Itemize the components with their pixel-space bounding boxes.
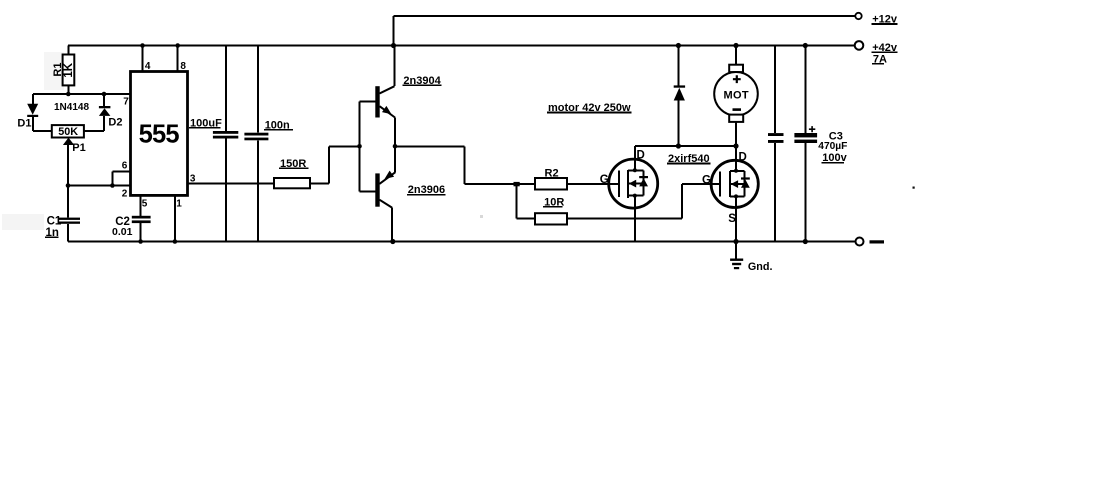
svg-text:D2: D2	[108, 116, 122, 128]
svg-text:7: 7	[123, 97, 129, 108]
svg-text:G: G	[702, 175, 711, 187]
svg-text:R2: R2	[545, 167, 559, 179]
svg-text:4: 4	[145, 61, 151, 72]
svg-text:1K: 1K	[63, 62, 75, 77]
svg-text:0.01: 0.01	[112, 226, 133, 238]
svg-text:G: G	[600, 174, 609, 186]
svg-text:8: 8	[180, 61, 186, 72]
svg-text:3: 3	[190, 174, 196, 185]
svg-text:MOT: MOT	[724, 89, 749, 101]
svg-text:5: 5	[142, 198, 148, 209]
svg-text:P1: P1	[72, 142, 85, 154]
svg-text:S: S	[728, 213, 736, 225]
svg-text:D: D	[739, 151, 747, 163]
svg-text:D: D	[637, 150, 645, 162]
svg-text:2: 2	[122, 189, 128, 200]
svg-text:555: 555	[139, 121, 180, 149]
svg-text:1: 1	[176, 198, 182, 209]
svg-text:1N4148: 1N4148	[54, 102, 89, 113]
svg-text:50K: 50K	[58, 126, 78, 138]
svg-text:D1: D1	[17, 117, 31, 129]
svg-text:470µF: 470µF	[818, 141, 847, 152]
svg-text:R1: R1	[52, 63, 64, 77]
svg-text:C1: C1	[47, 215, 62, 227]
svg-text:6: 6	[122, 161, 128, 172]
svg-text:Gnd.: Gnd.	[748, 261, 773, 273]
